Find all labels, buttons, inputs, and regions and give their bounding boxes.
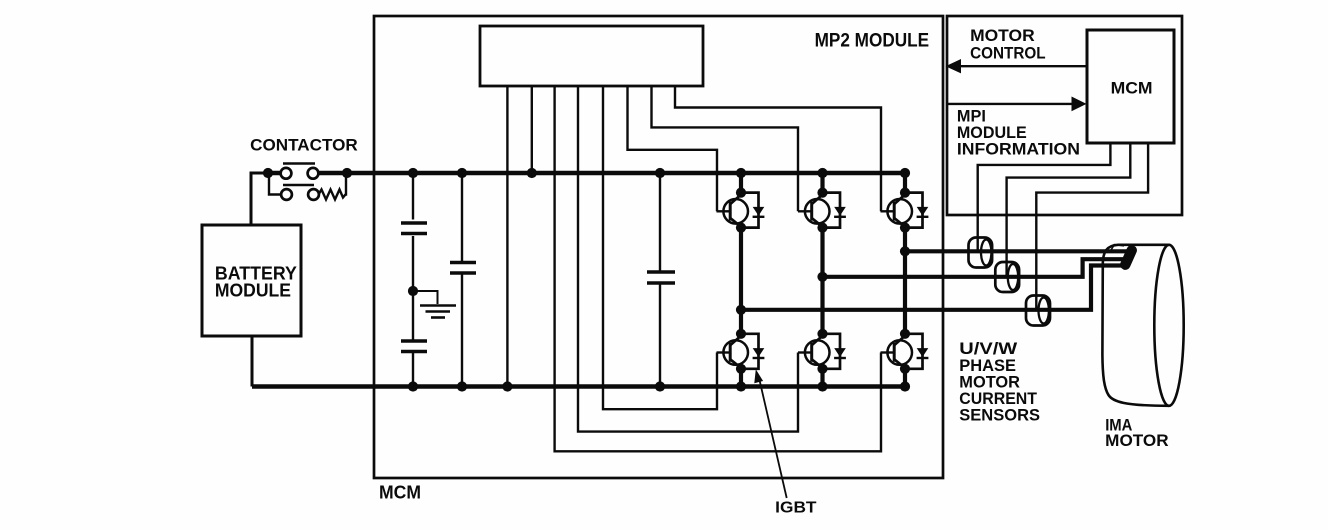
svg-text:MCM: MCM bbox=[379, 483, 421, 503]
svg-text:IGBT: IGBT bbox=[775, 500, 817, 517]
svg-text:PHASE: PHASE bbox=[959, 357, 1016, 375]
svg-text:CURRENT: CURRENT bbox=[959, 390, 1037, 408]
svg-text:U/V/W: U/V/W bbox=[959, 340, 1017, 358]
svg-text:CONTACTOR: CONTACTOR bbox=[250, 135, 357, 154]
svg-text:MOTOR: MOTOR bbox=[1105, 432, 1168, 450]
svg-text:CONTROL: CONTROL bbox=[970, 44, 1046, 63]
svg-text:MODULE: MODULE bbox=[215, 280, 291, 300]
svg-text:MP2 MODULE: MP2 MODULE bbox=[815, 30, 930, 51]
svg-text:INFORMATION: INFORMATION bbox=[957, 140, 1080, 159]
svg-text:MCM: MCM bbox=[1111, 78, 1153, 97]
svg-text:MOTOR: MOTOR bbox=[970, 26, 1035, 45]
svg-text:SENSORS: SENSORS bbox=[959, 407, 1040, 425]
